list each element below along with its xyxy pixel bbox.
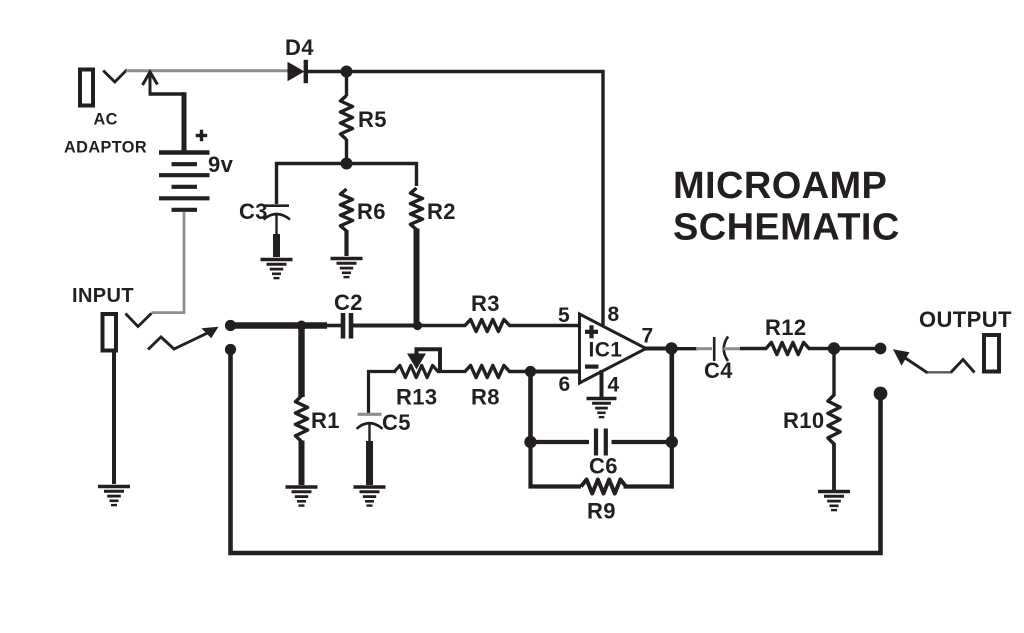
ground (input jack) [98, 487, 130, 506]
resistor R2 [410, 188, 422, 326]
wire junction down to feedback rail [528, 372, 533, 443]
label R8 [471, 385, 500, 410]
input jack J2 [103, 313, 152, 350]
capacitor C6 [596, 429, 606, 456]
svg-text:8: 8 [608, 303, 620, 326]
wire top rail to op-amp pin 8 [350, 72, 603, 326]
label R5 [358, 107, 387, 132]
label + (battery positive) [196, 130, 208, 142]
node output jack sleeve [874, 387, 888, 401]
node output jack tip [875, 343, 887, 355]
label C4 [704, 358, 733, 383]
svg-text:4: 4 [608, 374, 620, 397]
svg-text:R1: R1 [311, 408, 340, 433]
wire AC jack to D4 anode (gray) [126, 69, 288, 72]
node inverting input junction [525, 366, 536, 377]
label R13 [396, 385, 438, 410]
pin 8 label [608, 303, 620, 326]
resistor R5 [340, 75, 352, 162]
label R9 [587, 499, 616, 524]
label IC1 [589, 339, 623, 362]
label R10 [783, 408, 825, 433]
input plug arrow (signal entry) [148, 327, 219, 350]
node C2/R2 junction [413, 321, 422, 330]
label AC ADAPTOR [64, 111, 147, 157]
wire C2 to R3 junction [353, 324, 420, 328]
ground (R1) [286, 487, 318, 506]
svg-text:IC1: IC1 [589, 339, 623, 362]
label R6 [357, 199, 386, 224]
capacitor C2 [343, 313, 351, 339]
svg-text:R5: R5 [358, 107, 387, 132]
node R12/R10 junction [828, 342, 840, 354]
wire junction to op-amp pin 6 [531, 370, 580, 374]
ground (R6) [331, 259, 363, 278]
label R2 [427, 199, 456, 224]
wire battery negative to input jack switch (gray) [152, 212, 185, 313]
pin 4 label [608, 374, 620, 397]
svg-text:OUTPUT: OUTPUT [919, 307, 1012, 332]
svg-text:R10: R10 [783, 408, 825, 433]
diode D4 [288, 60, 343, 83]
wire output sleeve return (bottom rail) [231, 348, 881, 553]
ground (C5) [354, 487, 386, 506]
resistor R12 [740, 342, 832, 354]
wire feedback rail [531, 440, 672, 444]
svg-text:R13: R13 [396, 385, 438, 410]
label 9v [208, 152, 234, 177]
label C2 [334, 290, 363, 315]
node V+ junction of D4, R5, top rail [341, 66, 353, 78]
AC adaptor jack J1 [80, 70, 127, 106]
svg-text:R3: R3 [471, 291, 500, 316]
resistor R6 [340, 189, 352, 256]
label R12 [765, 315, 807, 340]
capacitor C4 [714, 337, 741, 362]
svg-text:ADAPTOR: ADAPTOR [64, 139, 147, 157]
resistor R10 [828, 352, 840, 490]
wire input jack sleeve to ground [112, 351, 116, 484]
node junction R5/R6/C3/R2 [341, 158, 353, 170]
wire C5 top to R13 left terminal [369, 372, 397, 414]
label R1 [311, 408, 340, 433]
pin 5 label [558, 304, 570, 327]
wire junction to output jack tip [834, 347, 877, 350]
svg-text:R6: R6 [357, 199, 386, 224]
svg-text:C4: C4 [704, 358, 733, 383]
svg-text:C6: C6 [589, 454, 618, 479]
svg-text:MICROAMP: MICROAMP [673, 165, 887, 207]
svg-text:D4: D4 [285, 35, 314, 60]
wire supply rail to C3 and R2 [277, 164, 417, 205]
output plug arrow [893, 349, 928, 373]
label C3 [239, 199, 268, 224]
wire output junction down to feedback rail [669, 349, 674, 443]
label OUTPUT [919, 307, 1012, 332]
node feedback rail left [524, 436, 536, 448]
svg-text:R2: R2 [427, 199, 456, 224]
svg-text:SCHEMATIC: SCHEMATIC [673, 207, 900, 249]
wire pin7 junction to C4 [677, 347, 712, 350]
label R3 [471, 291, 500, 316]
resistor R3 [419, 319, 579, 331]
svg-text:C5: C5 [382, 410, 411, 435]
svg-text:AC: AC [94, 111, 118, 129]
svg-text:C2: C2 [334, 290, 363, 315]
wire op-amp output pin 7 [644, 347, 668, 351]
node feedback rail right [666, 436, 678, 448]
svg-text:7: 7 [642, 325, 654, 348]
pin 7 label [642, 325, 654, 348]
node output junction [665, 342, 677, 354]
node R1 junction [297, 321, 307, 331]
svg-text:R8: R8 [471, 385, 500, 410]
pin 6 label [559, 373, 571, 396]
svg-text:9v: 9v [208, 152, 234, 177]
node input return junction [225, 344, 236, 355]
svg-text:R12: R12 [765, 315, 807, 340]
resistor R9 loop [531, 444, 672, 494]
svg-text:INPUT: INPUT [72, 285, 134, 307]
svg-text:6: 6 [559, 373, 571, 396]
resistor R8 [465, 365, 532, 377]
ground (IC1 pin 4) [587, 399, 617, 418]
wire input signal (thick) to C2 [228, 322, 341, 328]
battery positive arrow contact [143, 72, 185, 151]
capacitor C3 [264, 206, 291, 257]
capacitor C5 [357, 414, 383, 485]
op-amp IC1 [580, 314, 647, 383]
node input tip junction [225, 320, 236, 331]
label D4 [285, 35, 314, 60]
battery B1 9v [159, 153, 210, 210]
label C6 [589, 454, 618, 479]
ground (C3) [261, 260, 293, 279]
label C5 [382, 410, 411, 435]
svg-text:C3: C3 [239, 199, 268, 224]
svg-text:R9: R9 [587, 499, 616, 524]
resistor R1 [295, 326, 307, 486]
wire op-amp pin 4 to ground [600, 370, 604, 397]
ground (R10) [818, 492, 850, 511]
output jack J3 [927, 335, 1000, 373]
svg-text:5: 5 [558, 304, 570, 327]
wire R13 to R8 [437, 370, 466, 373]
label INPUT [72, 285, 134, 307]
title MICROAMP SCHEMATIC [673, 165, 900, 249]
potentiometer R13 (rheostat) [395, 349, 441, 377]
